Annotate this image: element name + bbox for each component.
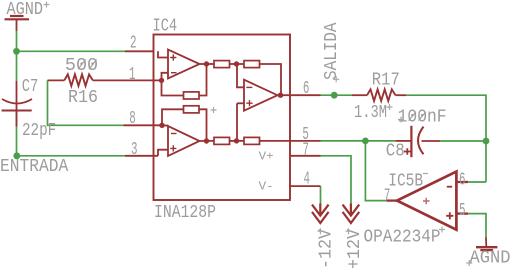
- svg-text:7: 7: [384, 187, 391, 207]
- svg-text:6: 6: [303, 79, 310, 99]
- svg-text:1: 1: [129, 65, 136, 85]
- svg-text:IC4: IC4: [153, 17, 178, 37]
- svg-text:7: 7: [303, 141, 310, 161]
- svg-text:500: 500: [65, 56, 98, 76]
- svg-text:AGND: AGND: [7, 0, 44, 20]
- svg-text:C7: C7: [22, 77, 39, 97]
- svg-text:8: 8: [129, 109, 136, 129]
- svg-text:V-: V-: [259, 180, 274, 194]
- svg-text:R16: R16: [68, 88, 98, 108]
- svg-text:ENTRADA: ENTRADA: [0, 157, 68, 177]
- svg-text:4: 4: [304, 170, 311, 190]
- svg-text:2: 2: [130, 34, 137, 54]
- svg-text:+12V: +12V: [345, 229, 365, 269]
- svg-text:SALIDA: SALIDA: [322, 22, 342, 80]
- svg-text:6: 6: [459, 171, 466, 191]
- svg-text:1.3M: 1.3M: [354, 103, 387, 123]
- svg-text:3: 3: [131, 140, 138, 160]
- svg-text:22pF: 22pF: [22, 121, 56, 141]
- svg-text:R17: R17: [372, 70, 400, 90]
- svg-text:5: 5: [459, 201, 466, 221]
- svg-text:OPA2234P: OPA2234P: [364, 228, 441, 248]
- svg-text:INA128P: INA128P: [154, 203, 216, 223]
- svg-text:-12V: -12V: [317, 229, 337, 269]
- svg-text:AGND: AGND: [470, 248, 511, 268]
- svg-text:V+: V+: [259, 150, 274, 164]
- svg-text:IC5B: IC5B: [388, 171, 423, 191]
- svg-text:C8: C8: [386, 141, 405, 161]
- svg-text:100nF: 100nF: [398, 108, 447, 128]
